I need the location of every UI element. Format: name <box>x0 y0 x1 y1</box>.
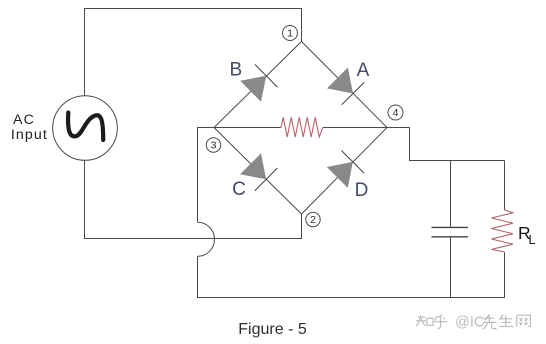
svg-text:A: A <box>357 60 370 81</box>
svg-text:Figure - 5: Figure - 5 <box>238 321 307 338</box>
svg-text:3: 3 <box>211 140 217 152</box>
svg-text:L: L <box>529 233 536 247</box>
svg-text:@IC: @IC <box>455 314 484 330</box>
svg-text:AC: AC <box>13 112 35 128</box>
svg-text:D: D <box>355 180 369 201</box>
svg-text:Input: Input <box>11 127 48 143</box>
svg-text:B: B <box>229 60 242 81</box>
svg-text:2: 2 <box>310 214 316 226</box>
svg-text:C: C <box>232 179 246 200</box>
svg-text:4: 4 <box>393 107 399 119</box>
svg-text:1: 1 <box>287 28 293 40</box>
